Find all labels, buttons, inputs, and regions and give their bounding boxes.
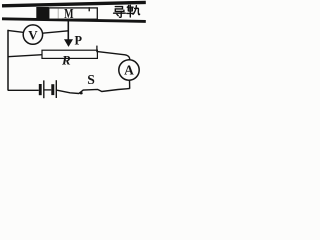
block (solid) left of rod (36, 7, 49, 19)
rail bottom (2, 19, 146, 22)
wire V right to tee (43, 31, 69, 33)
battery cell 1 thick plate (39, 84, 42, 95)
stub at resistor right (96, 46, 98, 53)
dark mark in rod right (89, 7, 91, 11)
voltmeter V (23, 25, 42, 44)
wire ammeter to bottom (129, 80, 131, 89)
battery cell 1 thin plate (43, 80, 45, 98)
rail top (2, 2, 146, 5)
faint divider in rod (57, 9, 59, 19)
bottom wire left segment (8, 89, 39, 91)
battery cell 2 thin plate (55, 80, 57, 98)
svg-text:V: V (28, 28, 38, 43)
wire rail to wiper (67, 20, 69, 40)
svg-text:S: S (87, 73, 95, 88)
battery cell 2 thick plate (51, 84, 54, 95)
svg-text:P: P (75, 34, 83, 48)
svg-text:A: A (124, 62, 134, 77)
switch pivot blob (80, 92, 83, 94)
svg-text:M: M (64, 7, 73, 22)
wiper arrowhead (64, 39, 73, 47)
bottom wire with switch jog (57, 89, 130, 94)
rod M outline box (49, 8, 98, 19)
wire between cells (45, 89, 52, 91)
wire resistor to ammeter (97, 52, 129, 60)
wire left vertical (7, 30, 9, 91)
resistor R box (42, 50, 97, 58)
label 导轨 (drawn strokes) (114, 5, 140, 17)
wire V left (8, 30, 24, 32)
ammeter A (119, 60, 139, 80)
wire to resistor (8, 55, 42, 57)
svg-text:R: R (61, 53, 71, 68)
